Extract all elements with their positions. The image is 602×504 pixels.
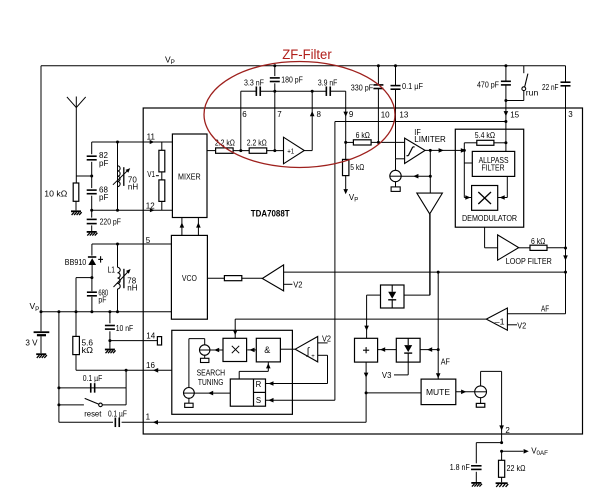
svg-text:DEMODULATOR: DEMODULATOR [462, 214, 517, 223]
svg-text:16: 16 [146, 361, 155, 370]
svg-text:VCO: VCO [182, 274, 197, 283]
svg-text:6 kΩ: 6 kΩ [356, 131, 370, 140]
svg-text:SEARCH: SEARCH [197, 368, 226, 377]
svg-text:+: + [311, 354, 315, 360]
svg-text:12: 12 [146, 202, 155, 211]
svg-text:220 pF: 220 pF [100, 217, 121, 226]
svg-text:8: 8 [317, 110, 322, 119]
svg-text:1.8 nF: 1.8 nF [450, 463, 470, 472]
svg-text:9: 9 [349, 110, 354, 119]
svg-text:S: S [256, 396, 261, 405]
svg-text:15: 15 [510, 110, 519, 119]
svg-text:3.3 nF: 3.3 nF [244, 78, 264, 87]
svg-text:0.1 µF: 0.1 µF [83, 374, 103, 383]
svg-text:22 nF: 22 nF [542, 83, 559, 92]
svg-text:MIXER: MIXER [178, 173, 201, 182]
svg-text:LOOP FILTER: LOOP FILTER [506, 257, 552, 266]
svg-text:run: run [526, 88, 539, 97]
svg-text:+1: +1 [287, 146, 294, 155]
svg-text:BB910: BB910 [65, 258, 87, 267]
svg-text:5.4 kΩ: 5.4 kΩ [475, 131, 495, 140]
svg-text:0.1 µF: 0.1 µF [402, 82, 423, 91]
svg-text:reset: reset [84, 409, 102, 418]
svg-text:10 kΩ: 10 kΩ [44, 189, 67, 198]
svg-text:5 kΩ: 5 kΩ [350, 163, 364, 172]
svg-text:L1: L1 [108, 266, 116, 275]
svg-text:LIMITER: LIMITER [414, 135, 446, 144]
svg-text:3: 3 [568, 110, 573, 119]
svg-text:3 V: 3 V [25, 338, 38, 347]
svg-text:MUTE: MUTE [426, 388, 450, 397]
svg-text:V2: V2 [293, 281, 303, 290]
svg-text:TDA7088T: TDA7088T [251, 208, 290, 218]
svg-text:FILTER: FILTER [482, 163, 505, 172]
svg-text:kΩ: kΩ [82, 346, 94, 355]
svg-text:22 kΩ: 22 kΩ [507, 464, 526, 473]
svg-text:2.2 kΩ: 2.2 kΩ [247, 139, 267, 148]
svg-text:2.2 kΩ: 2.2 kΩ [215, 139, 235, 148]
svg-text:pF: pF [98, 295, 106, 304]
svg-text:2: 2 [505, 426, 510, 435]
svg-text:7: 7 [277, 110, 282, 119]
svg-text:AF: AF [541, 305, 549, 314]
svg-text:ZF-Filter: ZF-Filter [282, 47, 332, 63]
svg-text:5: 5 [146, 236, 151, 245]
svg-text:10 nF: 10 nF [116, 324, 134, 333]
svg-text:10: 10 [381, 110, 390, 119]
svg-text:&: & [264, 345, 270, 355]
svg-text:nH: nH [127, 284, 137, 293]
svg-text:3.9 nF: 3.9 nF [318, 78, 338, 87]
svg-text:R: R [256, 380, 262, 389]
svg-text:TUNING: TUNING [198, 378, 224, 387]
svg-text:11: 11 [147, 132, 156, 141]
svg-text:V3: V3 [382, 371, 392, 380]
svg-text:6 kΩ: 6 kΩ [531, 237, 545, 246]
svg-text:180 pF: 180 pF [281, 75, 303, 84]
svg-text:330 pF: 330 pF [351, 83, 374, 92]
svg-text:470 pF: 470 pF [477, 80, 499, 89]
svg-text:V1: V1 [147, 170, 155, 179]
svg-text:nH: nH [128, 182, 138, 191]
svg-text:–1: –1 [495, 318, 505, 327]
svg-text:13: 13 [399, 110, 408, 119]
svg-text:V2: V2 [517, 321, 526, 330]
svg-text:1: 1 [146, 413, 151, 422]
svg-text:0.1 µF: 0.1 µF [108, 409, 127, 418]
svg-text:V2: V2 [322, 334, 331, 343]
svg-text:pF: pF [99, 159, 108, 168]
svg-text:pF: pF [99, 193, 108, 202]
svg-text:6: 6 [242, 110, 247, 119]
svg-text:14: 14 [146, 332, 155, 341]
svg-text:AF: AF [441, 357, 450, 366]
